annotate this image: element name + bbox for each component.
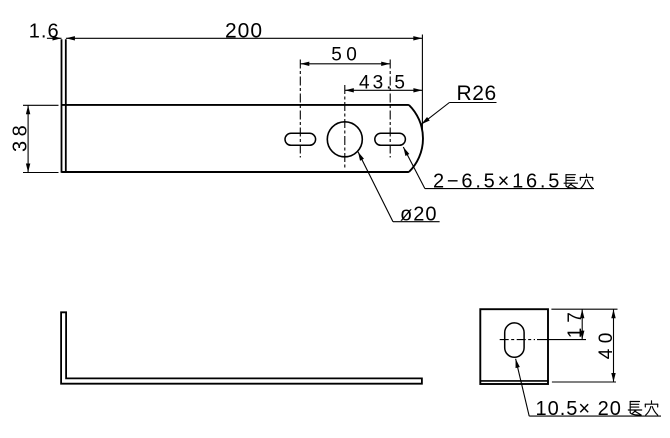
center line right slot [389, 60, 391, 158]
dimension 38 line [27, 105, 29, 172]
slotted hole right 6.5x16.5 [375, 133, 406, 145]
svg-text:38: 38 [9, 121, 31, 152]
kanji ana (hole) bottom [645, 401, 657, 415]
2-6.5x16.5 leader line [403, 147, 425, 189]
end view bottom extension line [552, 381, 616, 383]
end view slot 10.5x20 [505, 323, 524, 357]
svg-text:50: 50 [331, 45, 361, 66]
dimension 200 line [66, 37, 422, 39]
svg-text:40: 40 [596, 327, 617, 359]
10.5x20 leader line [516, 359, 530, 416]
ø20 leader line [358, 152, 393, 222]
top view: left bend outer line [61, 39, 63, 173]
dimension 200 right arrow [413, 36, 422, 40]
end view top extension line [551, 308, 617, 310]
dimension 50 arrow right [381, 62, 390, 66]
2-6.5x16.5 leader underline [425, 188, 594, 190]
kanji naga (long) bottom [628, 402, 641, 416]
10.5x20 leader arrow [516, 359, 520, 368]
dimension 17 extension line [537, 339, 586, 341]
svg-text:R26: R26 [457, 82, 497, 105]
end view flange rectangle [480, 309, 548, 384]
kanji naga (long) [564, 175, 577, 189]
2-6.5x16.5 leader arrow [403, 147, 409, 156]
dimension 43.5 line [345, 89, 423, 91]
dimension 38 arrow top [26, 105, 30, 114]
dimension 43.5 arrow left [345, 88, 354, 92]
dimension 17 arrow top [580, 309, 584, 318]
R26 leader arrow [421, 117, 429, 124]
center line left slot [299, 60, 301, 158]
dimension 38 extension line bottom [23, 172, 59, 174]
end view plate thickness line [480, 380, 548, 382]
dimension 43.5 arrow right [413, 88, 422, 92]
ø20 leader underline [393, 221, 440, 223]
R26 leader underline [449, 102, 496, 104]
dimension 50 line [300, 63, 390, 65]
top view: R26 rounded end arc [409, 105, 423, 172]
dimension 200 right extension line [421, 35, 423, 132]
dimension 17 line [581, 309, 583, 339]
hole circle ø20 [327, 122, 362, 157]
svg-text:17: 17 [565, 307, 586, 338]
dimension 40 arrow top [611, 309, 615, 318]
dimension 1.6 line left [47, 37, 62, 39]
dimension 1.6 arrow left [53, 36, 62, 40]
svg-text:2−6.5×16.5: 2−6.5×16.5 [433, 171, 562, 193]
R26 leader line [421, 103, 449, 125]
top view: left bend inner line [65, 39, 67, 173]
top view: plate top edge [62, 104, 409, 106]
dimension 40 arrow bottom [611, 373, 615, 382]
dimension 17 arrow bottom [580, 331, 584, 340]
kanji ana (hole) [580, 174, 592, 188]
side view L profile [61, 312, 422, 383]
dimension 38 arrow bottom [26, 164, 30, 173]
center line circle [344, 85, 346, 169]
svg-text:10.5× 20: 10.5× 20 [536, 398, 622, 420]
slotted hole left 6.5x16.5 [285, 133, 316, 145]
top view: plate bottom edge [62, 171, 409, 173]
end view slot horizontal center line [500, 339, 535, 341]
ø20 leader arrow [358, 152, 364, 161]
dimension 50 arrow left [300, 62, 309, 66]
svg-text:43.5: 43.5 [359, 72, 408, 93]
svg-text:200: 200 [225, 20, 263, 43]
10.5x20 leader underline [529, 415, 661, 417]
dimension 1.6 arrow right [66, 36, 75, 40]
dimension 38 extension line top [23, 104, 59, 106]
dimension 40 line [613, 309, 615, 382]
